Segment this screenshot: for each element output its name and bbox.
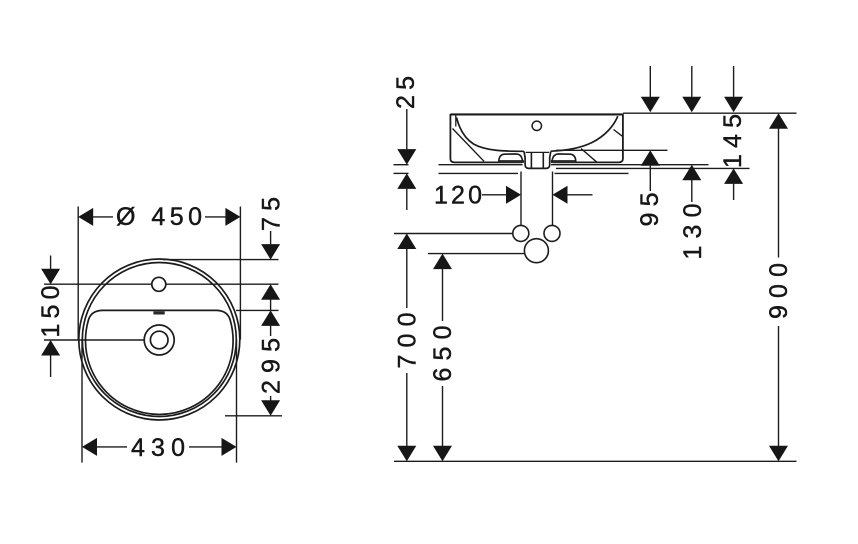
svg-text:295: 295 <box>258 338 286 394</box>
svg-text:120: 120 <box>434 182 482 210</box>
svg-text:Ø 450: Ø 450 <box>116 203 202 231</box>
svg-text:900: 900 <box>765 263 793 319</box>
svg-text:430: 430 <box>131 434 185 462</box>
svg-text:150: 150 <box>37 286 65 338</box>
svg-text:700: 700 <box>393 313 421 369</box>
svg-text:145: 145 <box>719 114 747 168</box>
svg-text:130: 130 <box>679 204 707 260</box>
svg-text:650: 650 <box>429 326 457 382</box>
